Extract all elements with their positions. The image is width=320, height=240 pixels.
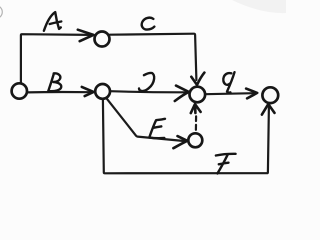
dashed wire (node 5 up to node 4): [195, 125, 197, 130]
wire F (down from node 3, along bottom, up into node 6): [103, 99, 269, 174]
arrowhead dashed into node 4 (up): [191, 104, 201, 113]
label G: [223, 72, 234, 92]
wire C (node 2 right, corner, down into node 4): [110, 34, 197, 80]
label B: [48, 73, 61, 91]
wire B (node 1 to node 3): [27, 91, 90, 94]
node 2 (top): [95, 32, 110, 47]
label A: [44, 12, 61, 31]
node 1 (left): [12, 83, 27, 98]
node 5 (lower): [188, 133, 202, 147]
page background: [0, 0, 286, 188]
wire G (node 4 to node 6): [205, 93, 254, 94]
faint cropped circled-number arc at left edge: [0, 6, 2, 19]
arrowhead B into node 3: [82, 87, 94, 96]
arrowhead D into node 4: [175, 86, 189, 101]
arrowhead A into node 2: [78, 30, 94, 42]
node 6 (right): [262, 87, 278, 103]
node 4 (merge): [190, 87, 206, 103]
arrowhead F into node 6 (up): [262, 104, 275, 115]
faint scan shading top-right: [232, 0, 286, 13]
label F: [216, 154, 236, 174]
label D: [139, 73, 154, 91]
arrowhead E into node 5: [173, 136, 187, 148]
arrowhead G into node 6: [246, 89, 257, 99]
wire A (up from node 1, right to node 2): [21, 34, 90, 83]
label E: [149, 119, 165, 138]
label C: [142, 18, 155, 30]
wire E (diagonal from node 3 then shallow into node 5): [106, 98, 184, 141]
arrowhead C into node 4 (down): [191, 73, 204, 85]
wire D (node 3 to node 4): [110, 91, 185, 92]
node 3 (middle): [95, 84, 110, 99]
